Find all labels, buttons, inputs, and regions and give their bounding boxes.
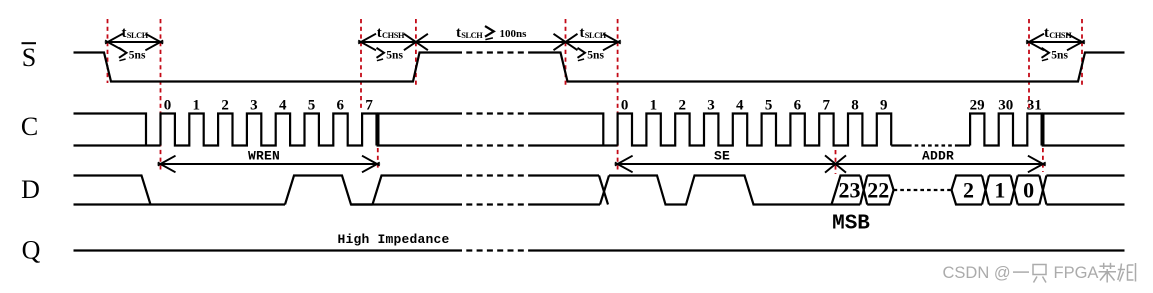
label >5ns [1042,48,1050,58]
arrow ADDR span with X at SE boundary [836,163,1043,165]
svg-text:D: D [21,175,40,204]
label >5ns [119,48,127,58]
label >5ns [377,48,385,58]
arrow t_SLCH (select setup) [108,41,161,43]
svg-text:Q: Q [22,236,41,265]
C wire: low line tail [1042,144,1125,146]
svg-text:9: 9 [880,98,888,114]
svg-text:SLCH: SLCH [585,31,607,40]
C wire: low line after burst1 [377,144,457,146]
svg-text:30: 30 [998,98,1013,114]
red marker line: S rise right (t_CHSH end), x=1082 [1081,19,1083,85]
svg-text:8: 8 [851,98,859,114]
D wire: low line WREN bits 7-4 [74,203,286,205]
red marker line: WREN arrow end, x=377.8 [377,148,379,171]
D wire: dont-care resumes high [531,174,599,176]
svg-text:100ns: 100ns [500,28,528,40]
svg-text:6: 6 [337,98,345,114]
red marker line: S fall (t_SLCH start), x=107.5 [107,19,109,83]
svg-text:WREN: WREN [248,149,280,164]
svg-text:C: C [21,112,38,141]
C wire: idle low line [74,144,161,146]
svg-text:S: S [22,43,36,72]
C wire: low line into burst2 [531,144,618,146]
Q wire: time-break dashes [456,249,531,251]
addr cell 2 open [952,176,983,191]
C wire: clock pulses 29-31 (ADDR end) [970,114,1042,146]
svg-text:22: 22 [867,178,889,203]
addr cells skipped dashes (mid level) [894,189,952,191]
arrow WREN span [161,163,378,165]
red marker line: ADDR arrow end, x=1042.9 [1042,148,1044,172]
C wire: rise to dont-care after pulse 31 [1043,114,1124,146]
red marker line: S rise (t_CHSH end), x=415.9 [415,19,417,85]
svg-text:23: 23 [839,178,861,203]
svg-text:5ns: 5ns [1051,50,1068,62]
addr cell X after bit0 [1039,176,1046,205]
svg-text:1: 1 [193,98,201,114]
svg-text:6: 6 [794,98,802,114]
svg-text:MSB: MSB [832,213,870,236]
arrow t_CHSH (deselect setup) [361,41,416,43]
red marker line: S fall (deselect end), x=565.5 [565,19,567,85]
D wire: idle dont-care high with fall (WREN b7=0) [74,176,151,205]
svg-text:ADDR: ADDR [922,149,954,164]
D wire: time-break dashes high [456,174,531,176]
svg-text:SE: SE [714,149,730,164]
svg-text:2: 2 [221,98,229,114]
svg-text:1: 1 [650,98,658,114]
red marker line: clock7 rise burst1 (t_CHSH start), x=361 [360,19,362,111]
Q wire: high impedance line [74,249,457,251]
S wire: idle high then select (fall) [74,53,457,82]
svg-text:CSDN @: CSDN @ [943,264,1011,282]
addr cell 1 edges [989,174,1011,176]
C wire: low before pulse 29 [956,144,970,146]
C wire: skipped-clocks dashes low [908,144,956,146]
C wire: clock burst pulses 0-9 (SE+ADDR) [618,114,892,146]
D wire: SE bits 11011000 [609,176,860,205]
svg-text:5: 5 [765,98,773,114]
svg-text:0: 0 [1023,178,1034,203]
svg-text:High Impedance: High Impedance [337,232,449,247]
svg-text:3: 3 [707,98,715,114]
watermark CSDN @FPGA [943,263,1136,283]
D wire: dont-care resumes low [531,203,600,205]
svg-text:SLCH: SLCH [127,31,149,40]
addr cell 0 edges [1018,174,1040,176]
red marker line: clock0 rise burst2 / SE start, x=617.6 [617,19,619,171]
red marker line: SE/ADDR boundary, x=835.5 [835,150,837,174]
C wire: idle dont-care high line with fall [74,114,147,146]
red marker line: clock31 rise (t_CHSH start), x=1029 [1028,19,1030,111]
C wire: rise to dont-care after pulse 7 [378,114,456,146]
label >5ns [578,48,586,58]
svg-text:4: 4 [279,98,287,114]
svg-text:3: 3 [250,98,258,114]
svg-text:0: 0 [164,98,172,114]
svg-text:29: 29 [970,98,985,114]
C wire: time-break dashes low [456,144,531,146]
svg-text:4: 4 [736,98,744,114]
arrow t_SLCH (2nd select setup) [566,41,619,43]
arrow t_CHSH (right) [1029,41,1082,43]
svg-text:CHSH: CHSH [382,31,405,40]
svg-text:7: 7 [822,98,830,114]
S wire: time-break dashes (deselected high) [456,51,531,53]
svg-text:2: 2 [963,178,974,203]
svg-text:31: 31 [1027,98,1042,114]
svg-text:2: 2 [678,98,686,114]
svg-text:5ns: 5ns [386,50,403,62]
svg-text:5: 5 [308,98,316,114]
C wire: clock burst pulses 0-7 (WREN) [161,114,377,146]
svg-text:7: 7 [365,98,373,114]
addr cell X 1/0 [1011,176,1018,205]
D wire: dont-care tail [1046,174,1124,176]
D wire: low line dont-care region [351,203,456,205]
red marker line: clock0 rise burst1 / WREN start, x=160.5 [160,19,162,171]
Q wire: high impedance line right [531,249,1125,251]
svg-text:CHSH: CHSH [1049,31,1072,40]
D wire: rise into address cell 23 [832,176,861,205]
C wire: time-break dashes high [456,112,531,114]
D wire: X transition into SE command [599,176,608,205]
C wire: dont-care resumes, high falls before burst2 [531,114,603,146]
S wire: deselect high, fall, low through command, rise at end [531,53,1125,82]
addr cell X 2/1 [982,176,989,205]
svg-text:FPGA: FPGA [1054,264,1099,282]
svg-text:SLCH: SLCH [461,31,483,40]
svg-text:0: 0 [621,98,629,114]
addr cell 22 edges [867,176,893,191]
addr cell X 23/22 [860,176,867,205]
D wire: time-break dashes low [456,203,531,205]
arrow t_SLCH>=100ns (deselect time) [416,41,566,43]
arrow SE span [618,163,836,165]
svg-text:5ns: 5ns [587,50,604,62]
D wire: rise to dont-care after WREN [373,176,457,205]
C wire: low after pulse 9 [891,144,908,146]
D wire: WREN bits 5,6 high pulse [285,176,373,205]
svg-text:5ns: 5ns [129,50,146,62]
svg-text:1: 1 [994,178,1005,203]
